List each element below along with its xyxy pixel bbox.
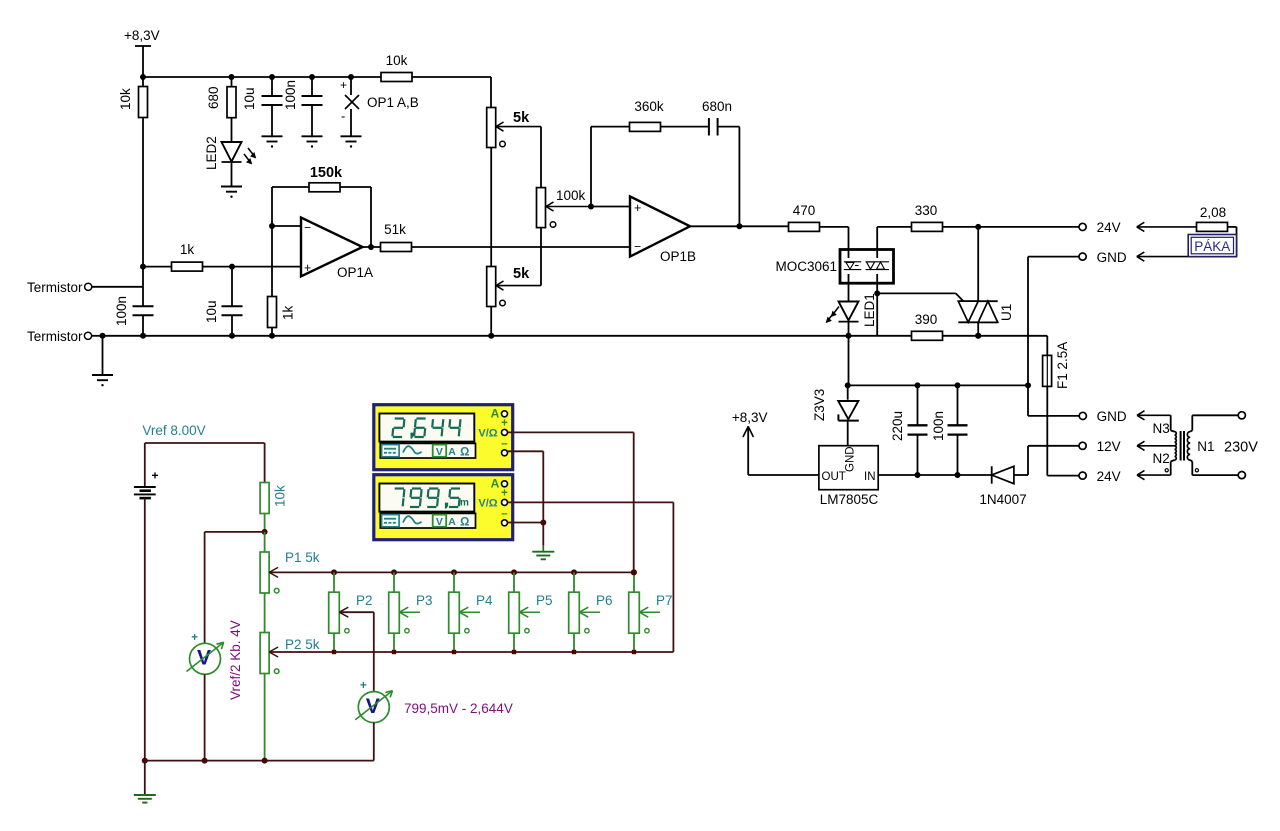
svg-text:U1: U1: [999, 304, 1014, 321]
svg-text:−: −: [501, 439, 507, 451]
svg-text:Termistor: Termistor: [27, 280, 83, 295]
svg-text:GND: GND: [1097, 409, 1127, 424]
svg-text:MOC3061: MOC3061: [775, 259, 837, 274]
svg-text:+8,3V: +8,3V: [124, 28, 160, 43]
svg-text:GND: GND: [1097, 250, 1127, 265]
svg-text:100n: 100n: [114, 296, 129, 326]
svg-text:−: −: [634, 240, 641, 254]
svg-text:+: +: [340, 78, 347, 92]
svg-text:A: A: [448, 516, 456, 528]
svg-text:P2: P2: [356, 593, 373, 608]
svg-text:680: 680: [206, 86, 221, 109]
svg-text:+: +: [501, 418, 508, 430]
svg-text:P7: P7: [656, 593, 673, 608]
svg-text:799,5mV - 2,644V: 799,5mV - 2,644V: [404, 701, 513, 716]
svg-text:LED1: LED1: [862, 293, 877, 327]
svg-text:N3: N3: [1153, 421, 1170, 436]
svg-text:m: m: [460, 498, 469, 509]
svg-text:-: -: [341, 109, 345, 124]
svg-text:IN: IN: [864, 471, 876, 483]
svg-text:P1 5k: P1 5k: [285, 550, 320, 565]
svg-text:+: +: [501, 488, 508, 500]
svg-text:P6: P6: [596, 593, 613, 608]
svg-text:A: A: [448, 446, 456, 458]
svg-text:LM7805C: LM7805C: [820, 492, 879, 507]
svg-text:N2: N2: [1153, 451, 1170, 466]
svg-text:P3: P3: [416, 593, 433, 608]
svg-text:−: −: [304, 221, 311, 235]
svg-text:Ω: Ω: [460, 447, 469, 459]
svg-text:100k: 100k: [556, 188, 586, 203]
svg-text:F1 2.5A: F1 2.5A: [1055, 342, 1070, 389]
svg-text:150k: 150k: [310, 165, 343, 181]
svg-text:−: −: [501, 509, 507, 521]
svg-text:GND: GND: [845, 446, 857, 472]
svg-text:LED2: LED2: [204, 136, 219, 170]
svg-text:100n: 100n: [931, 411, 946, 441]
svg-text:+: +: [191, 632, 198, 644]
svg-text:Z3V3: Z3V3: [812, 389, 827, 421]
svg-text:390: 390: [915, 312, 938, 327]
svg-text:+: +: [152, 469, 159, 483]
svg-text:+: +: [634, 201, 641, 215]
svg-text:5k: 5k: [513, 266, 530, 282]
svg-text:10k: 10k: [273, 485, 288, 507]
svg-text:1N4007: 1N4007: [979, 492, 1026, 507]
svg-text:680n: 680n: [702, 99, 732, 114]
svg-text:51k: 51k: [384, 222, 406, 237]
svg-text:OP1A: OP1A: [337, 265, 373, 280]
svg-text:10k: 10k: [386, 53, 408, 68]
svg-text:P5: P5: [536, 593, 553, 608]
svg-text:1k: 1k: [180, 242, 195, 257]
svg-text:OP1B: OP1B: [660, 249, 696, 264]
svg-text:10u: 10u: [242, 87, 257, 110]
svg-text:360k: 360k: [634, 99, 664, 114]
svg-text:10u: 10u: [204, 300, 219, 323]
svg-text:230V: 230V: [1224, 440, 1258, 456]
svg-text:5k: 5k: [513, 110, 530, 126]
svg-text:N1: N1: [1197, 439, 1214, 454]
svg-text:+: +: [360, 680, 367, 692]
svg-text:470: 470: [793, 203, 816, 218]
svg-text:1k: 1k: [281, 305, 296, 320]
svg-text:Vref/2 Kb. 4V: Vref/2 Kb. 4V: [228, 620, 243, 700]
svg-text:V: V: [436, 446, 443, 458]
svg-text:P4: P4: [476, 593, 493, 608]
svg-text:Termistor: Termistor: [27, 329, 83, 344]
svg-text:A: A: [491, 477, 500, 491]
svg-text:24V: 24V: [1097, 469, 1121, 484]
svg-text:PÁKA: PÁKA: [1194, 239, 1230, 254]
svg-text:V/Ω: V/Ω: [478, 428, 497, 440]
svg-text:330: 330: [915, 203, 938, 218]
svg-text:P2 5k: P2 5k: [285, 637, 320, 652]
svg-text:100n: 100n: [283, 80, 298, 110]
svg-text:24V: 24V: [1097, 220, 1121, 235]
svg-text:OP1 A,B: OP1 A,B: [367, 95, 419, 110]
svg-text:V/Ω: V/Ω: [478, 498, 497, 510]
svg-text:V: V: [436, 516, 443, 528]
svg-text:Vref 8.00V: Vref 8.00V: [142, 423, 205, 438]
svg-text:2,08: 2,08: [1200, 205, 1226, 220]
svg-text:12V: 12V: [1097, 439, 1121, 454]
svg-text:OUT: OUT: [822, 471, 846, 483]
svg-text:10k: 10k: [118, 88, 133, 110]
svg-text:220u: 220u: [890, 411, 905, 441]
svg-text:Ω: Ω: [460, 517, 469, 529]
svg-text:A: A: [491, 407, 500, 421]
svg-text:+: +: [304, 261, 311, 275]
svg-text:+8,3V: +8,3V: [732, 410, 768, 425]
